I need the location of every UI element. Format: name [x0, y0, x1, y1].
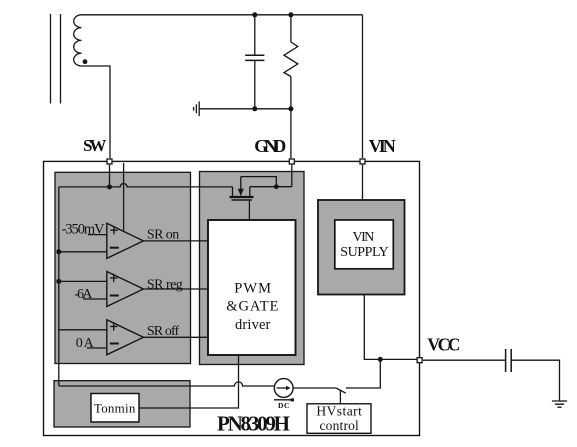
svg-text:VIN: VIN	[353, 230, 375, 245]
svg-text:-6A: -6A	[74, 287, 93, 302]
wire U3 output SR off	[143, 336, 208, 338]
wire Q1 body loop	[241, 177, 276, 187]
svg-text:SUPPLY: SUPPLY	[340, 245, 389, 260]
node dot top-resistor	[288, 12, 293, 17]
wire SW pin drop	[109, 165, 111, 187]
wire U3 plus input	[59, 329, 107, 331]
svg-text:control: control	[320, 418, 360, 433]
wire VIN pin to supply	[362, 165, 364, 200]
node dot rail-comp2	[56, 279, 61, 284]
wire ground rail	[199, 108, 291, 110]
switch S1 pole drop	[339, 390, 341, 404]
wire VCC external	[423, 359, 506, 361]
wire supply to VCC rail	[364, 295, 417, 360]
PWM &GATE driver box	[208, 220, 296, 355]
op-amp U1	[107, 223, 144, 258]
svg-text:SR reg: SR reg	[147, 277, 183, 292]
ground symbol G2	[552, 401, 567, 407]
svg-text:GND: GND	[254, 136, 286, 156]
svg-text:&GATE: &GATE	[226, 298, 278, 314]
op-amp U3	[107, 320, 144, 355]
svg-text:HVstart: HVstart	[316, 404, 362, 419]
node dot drain	[274, 184, 279, 189]
wire Q1 gate drive	[248, 201, 250, 220]
pin SW	[107, 159, 112, 164]
tonmin block (gray)	[54, 381, 190, 427]
svg-text:0A: 0A	[76, 336, 95, 351]
svg-text:driver: driver	[235, 317, 271, 333]
resistor R1 leads	[290, 15, 292, 159]
op-amp U2	[107, 272, 144, 307]
wire U2 output SR reg	[143, 288, 208, 290]
VIN supply block (gray)	[318, 200, 405, 295]
wire GND pin drop	[291, 165, 293, 187]
svg-text:DC: DC	[278, 401, 289, 410]
svg-text:SW: SW	[83, 136, 106, 155]
node dot VCC branch	[378, 357, 383, 362]
switch S1 wire left	[293, 387, 336, 389]
node dot rail-comp1	[56, 249, 61, 254]
svg-text:PN8309H: PN8309H	[217, 412, 290, 436]
svg-text:SR on: SR on	[147, 227, 179, 242]
wire comp1 plus drop	[123, 163, 125, 231]
ground symbol G1	[194, 102, 200, 117]
wire PWM bottom to Tonmin	[139, 356, 239, 408]
wire left rail	[58, 187, 60, 386]
node dot cap-bottom	[252, 106, 257, 111]
IC outline PN8309H	[44, 161, 420, 435]
wire top rail	[82, 14, 363, 16]
svg-text:-350mV: -350mV	[62, 222, 106, 238]
wire HV branch drop	[346, 359, 381, 388]
wire U2 plus input	[59, 280, 107, 282]
node dot SW-internal	[107, 184, 112, 189]
svg-text:VIN: VIN	[369, 136, 396, 156]
wire U3 minus input underline	[87, 347, 107, 349]
transistor Q1 gate bar	[232, 199, 253, 201]
svg-text:SR off: SR off	[147, 324, 180, 339]
svg-text:PWM: PWM	[234, 281, 271, 297]
resistor R1 zigzag	[284, 42, 298, 77]
pin GND	[289, 159, 294, 164]
svg-text:VCC: VCC	[427, 334, 460, 354]
wire C2 to ground	[511, 360, 559, 401]
capacitor C1 leads	[254, 15, 256, 109]
HVstart control box	[307, 404, 371, 434]
transformer T1 core	[51, 14, 61, 104]
comparator block (gray)	[55, 172, 191, 363]
capacitor C2 plates	[506, 349, 512, 372]
capacitor C1 plates	[245, 55, 264, 60]
current source CS1	[274, 379, 293, 398]
polarity dot	[83, 59, 88, 64]
node dot res-bottom	[288, 106, 293, 111]
node dot top-capacitor	[252, 12, 257, 17]
pin VCC	[417, 358, 422, 363]
transformer T1 primary winding	[74, 15, 82, 66]
wire U1 plus input underline	[88, 234, 107, 236]
transistor Q1 body arrow	[240, 177, 242, 190]
VIN SUPPLY inner box	[335, 220, 394, 269]
wire Q1 drain to GND	[250, 186, 292, 188]
switch S1 blade	[336, 388, 346, 393]
wire U1 output SR on	[143, 240, 208, 242]
wire SW (winding bottom to SW pin)	[82, 66, 111, 158]
svg-text:Tonmin: Tonmin	[94, 400, 136, 415]
wire U1 minus input	[59, 251, 107, 253]
pin VIN	[360, 159, 365, 164]
transistor Q1 channel bar	[230, 196, 254, 198]
Tonmin box	[91, 394, 139, 423]
wire rail to current source with hop	[59, 382, 274, 386]
current source underline	[274, 399, 292, 401]
wire sense line with hop	[59, 184, 233, 187]
wire U2 minus input underline	[83, 298, 107, 300]
wire VIN drop	[362, 15, 364, 159]
transistor Q1 left contact	[232, 187, 234, 197]
driver block (gray)	[200, 172, 305, 365]
transistor Q1 right contact	[249, 187, 251, 197]
